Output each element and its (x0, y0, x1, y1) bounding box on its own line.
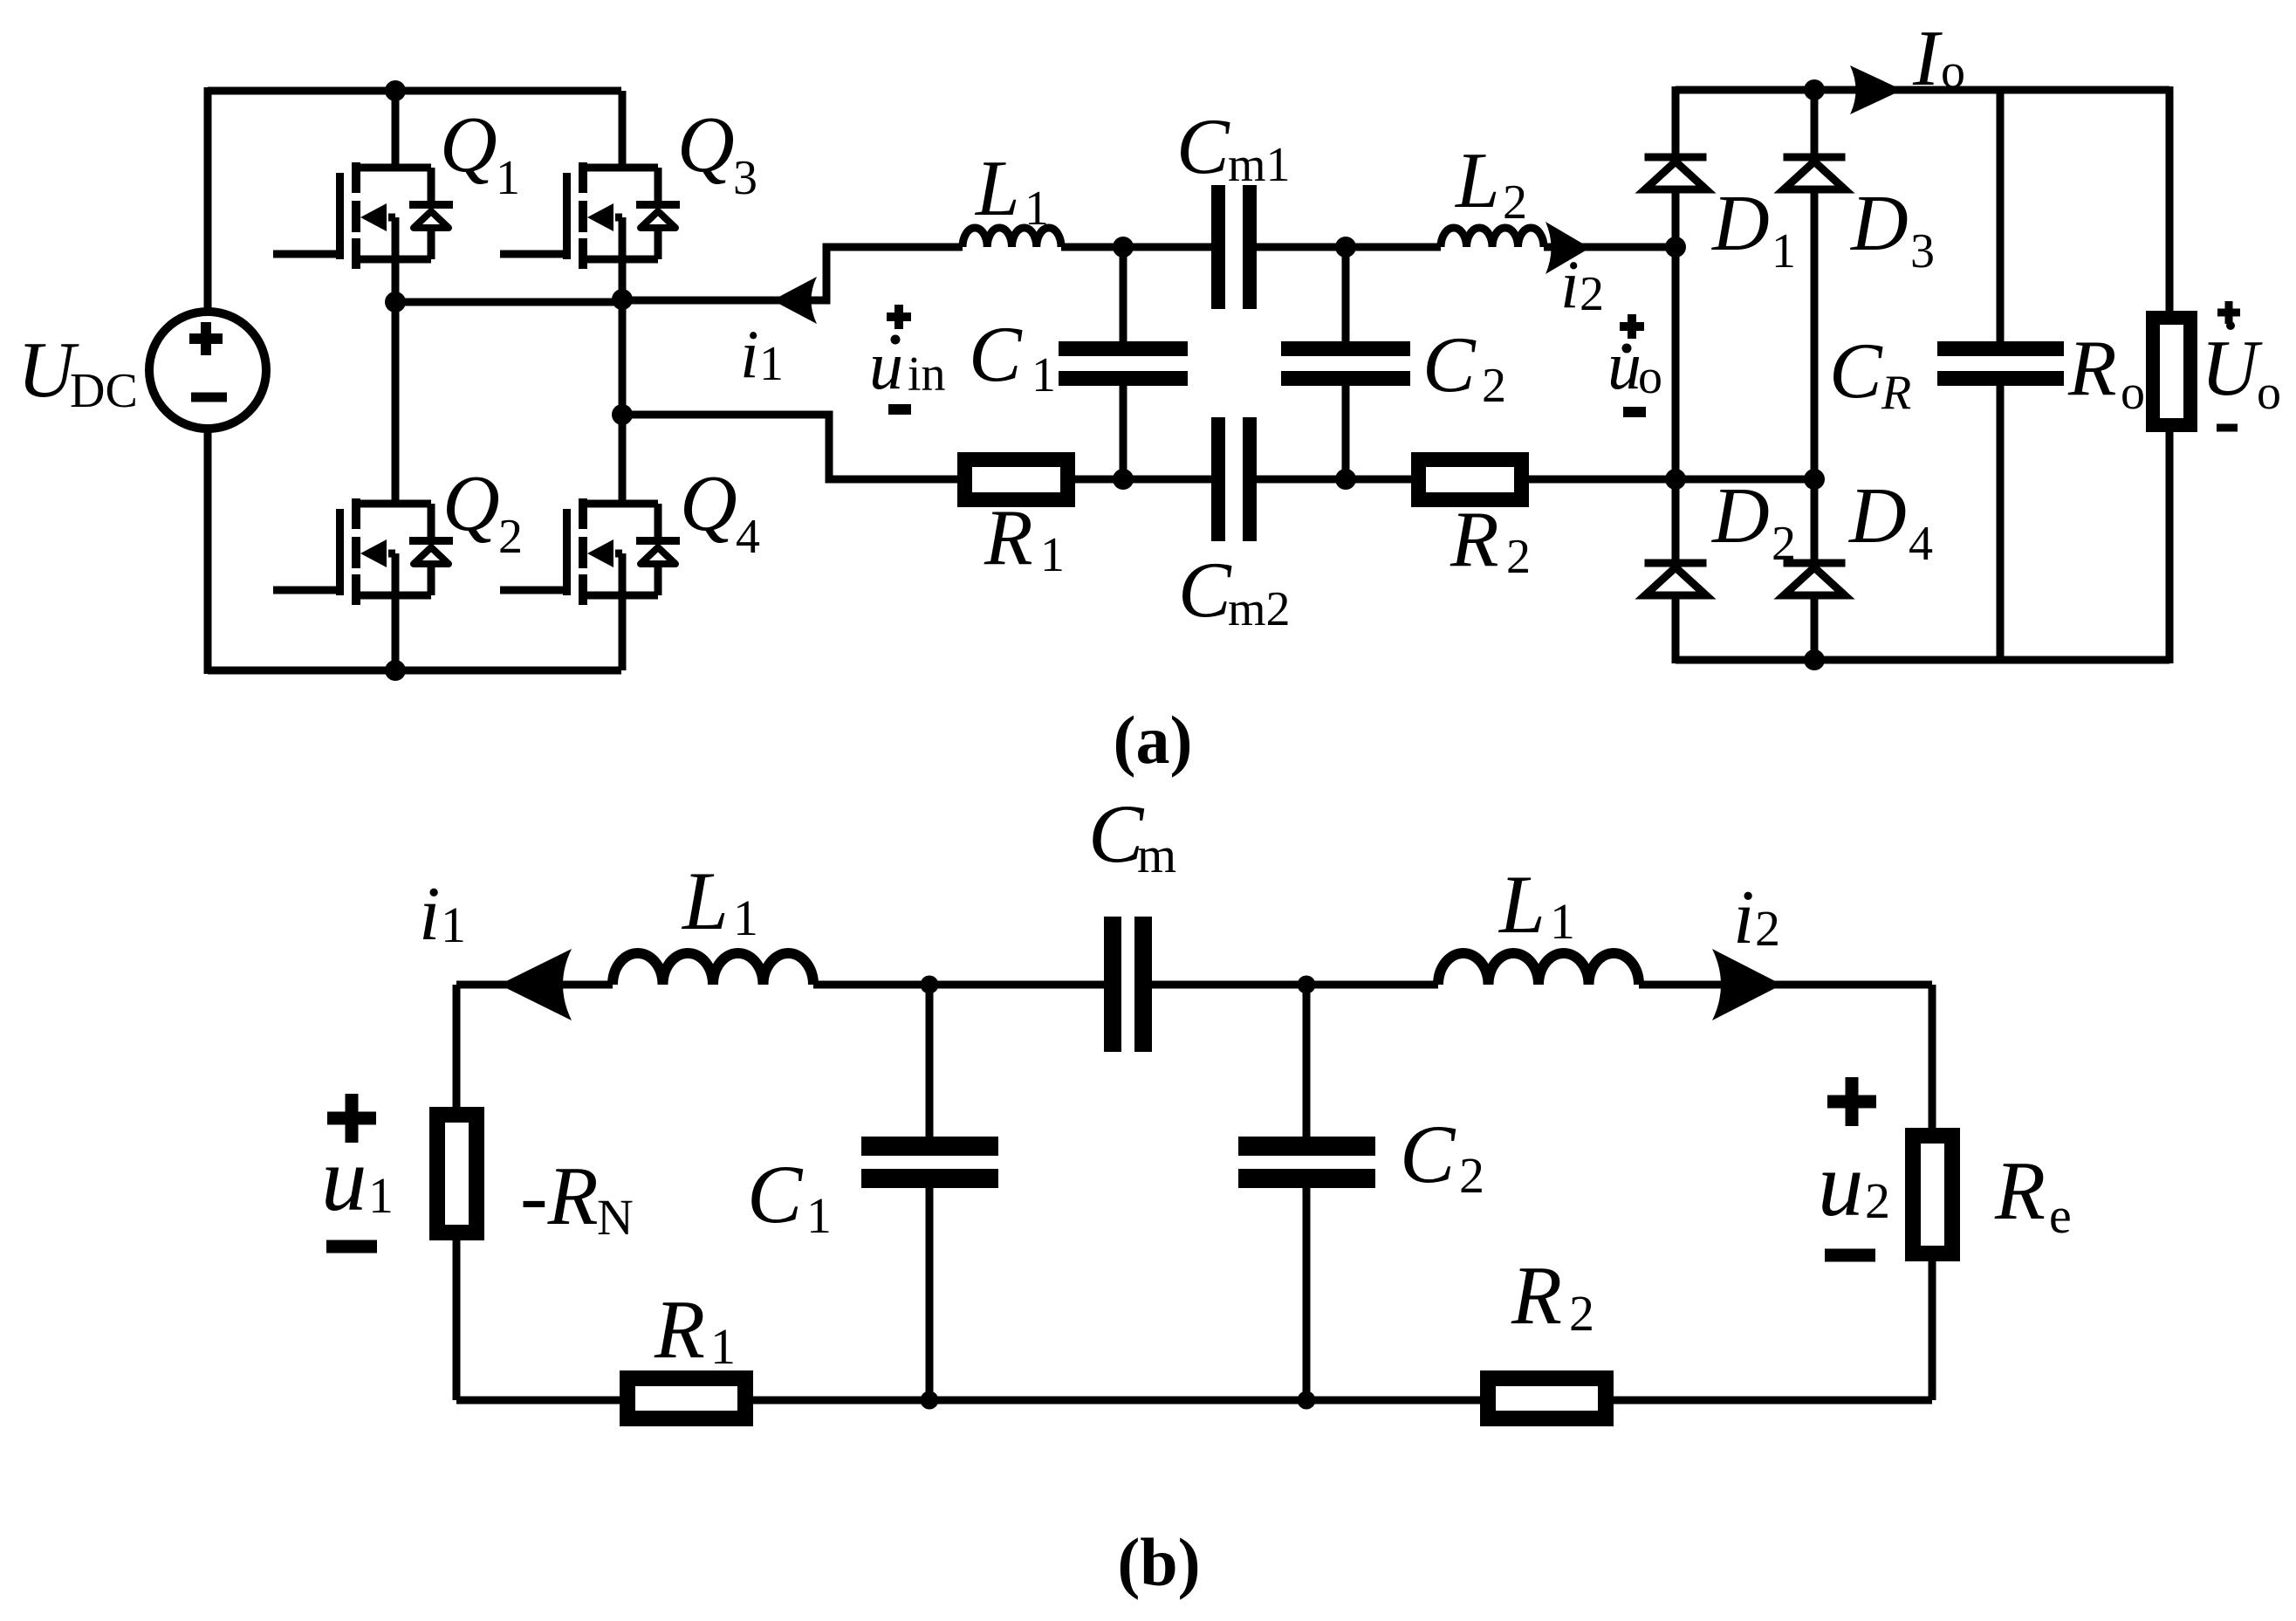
node: rectifier input bottom dot (1665, 469, 1686, 490)
label U_o (2226, 321, 2235, 330)
svg-text:R: R (1881, 366, 1911, 420)
svg-text:C: C (1400, 1108, 1456, 1200)
node: C2b top dot (1298, 976, 1316, 994)
svg-text:N: N (597, 1189, 634, 1246)
svg-text:o: o (2121, 366, 2145, 420)
svg-text:1: 1 (710, 1318, 736, 1375)
arrow i2b (pointing right) (1712, 949, 1782, 1020)
svg-text:1: 1 (733, 889, 758, 946)
svg-text:2: 2 (1482, 359, 1506, 413)
capacitor Cm plates (1104, 917, 1121, 1052)
svg-text:2: 2 (1865, 1172, 1890, 1229)
node: bottom rail D4 dot (1804, 649, 1825, 670)
arrow i1 (pointing left) (772, 277, 817, 324)
node: L1/C1 junction dot (1113, 237, 1134, 258)
wire: right leg bottom (619, 595, 627, 670)
label u_o (1622, 344, 1632, 354)
node: right leg upper dot (612, 289, 633, 310)
voltage source U_DC circle (149, 312, 266, 429)
svg-text:DC: DC (70, 364, 138, 418)
svg-text:o: o (2257, 366, 2281, 420)
transistor Q3 (500, 162, 680, 269)
svg-text:I: I (1912, 14, 1943, 102)
svg-text:C: C (1422, 320, 1477, 409)
wire: Cm to L1b right (1152, 981, 1438, 989)
svg-text:2: 2 (1459, 1147, 1484, 1204)
wire: inverter left vertical upper (204, 87, 212, 312)
svg-text:1: 1 (441, 896, 466, 953)
svg-text:L: L (1454, 136, 1500, 224)
node: bottom rail left leg dot (385, 660, 406, 681)
inductor L1 (963, 228, 1061, 247)
svg-text:L: L (681, 855, 729, 947)
svg-text:R: R (984, 493, 1033, 581)
capacitor C1 (fig b) stem and plates (926, 985, 934, 1400)
wire: R2 to rectifier lower node (1529, 476, 1814, 484)
svg-text:4: 4 (1909, 517, 1933, 571)
label u1 plus (327, 1094, 376, 1143)
capacitor Cm2 plates (1211, 417, 1225, 541)
capacitor CR plates (1937, 341, 2064, 356)
svg-text:1: 1 (1040, 528, 1065, 582)
svg-text:L: L (1498, 858, 1546, 951)
label U_o minus (2217, 424, 2238, 432)
wire: inverter top rail (208, 87, 621, 95)
svg-text:1: 1 (806, 1187, 832, 1244)
svg-text:1: 1 (1550, 893, 1575, 950)
svg-text:(b): (b) (1117, 1524, 1200, 1600)
capacitor C2 stem and plates (1342, 247, 1350, 479)
node: C2 bottom junction dot (1335, 469, 1356, 490)
wire: Cm1 to L2 (1257, 244, 1441, 251)
svg-text:3: 3 (1910, 224, 1935, 278)
transistor Q2 (273, 498, 453, 605)
node: C2b bottom dot (1298, 1391, 1316, 1410)
resistor Ro (2146, 311, 2197, 432)
svg-text:u: u (321, 1128, 367, 1230)
transistor Q4 (500, 498, 680, 605)
resistor R2 (1411, 452, 1529, 507)
wire: R1 to Cm2 (1075, 476, 1211, 484)
svg-text:2: 2 (1755, 900, 1780, 957)
svg-text:i: i (740, 316, 759, 392)
svg-text:2: 2 (1506, 530, 1531, 584)
wire: lower output wire from node B to R1 (622, 415, 957, 479)
diode D1 (1645, 157, 1707, 189)
inductor L2 (1441, 228, 1544, 247)
wire: left leg bottom (392, 595, 400, 670)
arrow i1b (pointing left) (499, 949, 572, 1020)
svg-text:Q: Q (677, 100, 735, 189)
svg-text:C: C (1176, 102, 1230, 190)
svg-text:1: 1 (1031, 348, 1056, 402)
svg-text:R: R (2067, 324, 2117, 412)
svg-text:e: e (2049, 1187, 2072, 1244)
wire: inverter bottom rail (208, 667, 621, 675)
svg-text:2: 2 (498, 510, 523, 564)
node: node A dot (385, 292, 406, 313)
svg-text:i: i (1733, 876, 1754, 960)
svg-text:C: C (1178, 546, 1232, 634)
wire: rectifier right leg (1811, 90, 1819, 660)
node: top rail left leg dot (385, 80, 406, 101)
svg-text:L: L (974, 144, 1020, 232)
svg-text:R: R (654, 1283, 705, 1376)
node: right leg lower dot (612, 404, 633, 425)
svg-text:1: 1 (759, 337, 784, 391)
svg-text:o: o (1638, 350, 1662, 404)
svg-text:C: C (747, 1148, 804, 1240)
label U_o plus (2217, 301, 2240, 324)
svg-text:1: 1 (368, 1167, 394, 1224)
svg-text:m: m (1137, 827, 1176, 883)
svg-text:3: 3 (733, 151, 757, 205)
label u_in minus (888, 404, 911, 415)
svg-text:U: U (2201, 324, 2263, 412)
node: rectifier input top dot (1665, 237, 1686, 258)
node: right leg lower dot (1804, 469, 1825, 490)
resistor R1 (fig b) (620, 1370, 753, 1426)
wire: Cm2 to R2 (1257, 476, 1411, 484)
svg-text:i: i (1560, 246, 1580, 322)
inductor L1 (fig b right) (1438, 953, 1639, 985)
wire: L1b right to Re corner (1639, 985, 1932, 1128)
arrow I_o (pointing right) (1850, 65, 1902, 114)
wire: rectifier top rail (1676, 86, 2169, 94)
svg-text:D: D (1847, 471, 1907, 560)
label u2 minus (1825, 1249, 1875, 1262)
wire: bridge output node A to node B (395, 299, 622, 306)
wire: left leg drain stub (392, 91, 400, 168)
svg-text:1: 1 (1772, 224, 1796, 278)
label u_in (891, 335, 901, 345)
svg-text:1: 1 (1025, 182, 1049, 236)
capacitor C1 stem and plates (1120, 247, 1127, 479)
label u1 minus (326, 1240, 377, 1254)
wire: L1 to Cm1 (1061, 244, 1211, 251)
node: C1b top dot (921, 976, 939, 994)
wire: i1 output wire with jog up to L1 (622, 247, 963, 300)
capacitor C2 (fig b) stem and plates (1303, 985, 1311, 1400)
node: C1b bottom dot (921, 1391, 939, 1410)
resistor Re (1905, 1128, 1960, 1261)
svg-text:2: 2 (1772, 517, 1796, 571)
svg-text:R: R (1994, 1144, 2046, 1237)
wire: right leg drain stub (619, 91, 627, 168)
wire: Ro branch (2166, 86, 2174, 663)
svg-text:2: 2 (1580, 267, 1604, 321)
svg-text:Q: Q (680, 459, 737, 547)
inductor L1 (fig b left) (613, 953, 813, 985)
arrow i2 (pointing right) (1546, 222, 1590, 274)
wire: right leg middle (619, 259, 627, 504)
svg-text:m1: m1 (1228, 138, 1291, 192)
diode D2 (1645, 563, 1707, 595)
node: C2 top junction dot (1335, 237, 1356, 258)
svg-text:u: u (1818, 1133, 1864, 1235)
svg-text:C: C (1829, 326, 1883, 415)
diode D4 (1784, 563, 1846, 595)
transistor Q1 (273, 162, 453, 269)
svg-text:(a): (a) (1114, 702, 1193, 778)
resistor R2 (fig b) (1480, 1370, 1614, 1426)
node: top rail D3 dot (1804, 79, 1825, 100)
svg-text:2: 2 (1503, 175, 1527, 230)
wire: L1b to Cm (813, 981, 1104, 989)
wire: left vertical upper (453, 985, 461, 1107)
svg-text:C: C (969, 310, 1023, 398)
svg-text:1: 1 (496, 151, 520, 205)
wire: fig b top left wire (456, 981, 613, 989)
wire: rectifier bottom rail (1676, 656, 2169, 664)
svg-text:in: in (908, 347, 946, 402)
svg-text:i: i (419, 872, 440, 957)
svg-text:2: 2 (1569, 1285, 1594, 1342)
svg-text:m2: m2 (1228, 582, 1291, 636)
wire: CR branch (1997, 90, 2005, 660)
U_DC plus sign (189, 322, 223, 355)
svg-text:-R: -R (520, 1150, 599, 1242)
svg-text:R: R (1450, 495, 1499, 583)
resistor -RN (429, 1107, 484, 1240)
label u_o plus (1620, 314, 1644, 339)
svg-text:Q: Q (442, 459, 500, 547)
svg-text:D: D (1710, 471, 1770, 560)
svg-text:o: o (1941, 45, 1965, 99)
wire: Re to bottom rail and bottom rail to left vertical (456, 1240, 1932, 1400)
svg-text:R: R (1511, 1249, 1562, 1342)
svg-text:4: 4 (736, 510, 760, 564)
wire: L2 to rectifier (1544, 244, 1676, 251)
label u_o minus (1623, 407, 1646, 417)
wire: rectifier left leg (1672, 86, 1680, 663)
svg-text:u: u (869, 327, 903, 403)
diode D3 (1784, 157, 1846, 189)
svg-text:D: D (1849, 179, 1909, 267)
node: C1 bottom junction dot (1113, 469, 1134, 490)
svg-text:u: u (1607, 327, 1641, 403)
resistor R1 (957, 452, 1075, 507)
capacitor Cm1 plates (1211, 185, 1225, 309)
svg-text:D: D (1710, 179, 1770, 267)
label u2 plus (1827, 1077, 1876, 1126)
wire: left leg middle (392, 259, 400, 504)
svg-text:Q: Q (440, 100, 497, 189)
label u_in plus (887, 305, 911, 329)
wire: inverter left vertical lower (204, 429, 212, 674)
U_DC minus sign (191, 393, 227, 402)
